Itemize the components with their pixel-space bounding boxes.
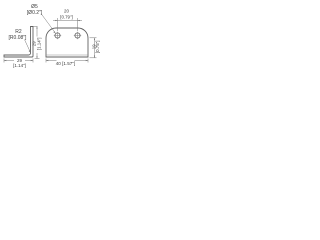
dia leader — [41, 14, 55, 33]
dim 40 extension lines — [45, 59, 47, 63]
dim 40 line — [46, 60, 57, 62]
dim 20 extension lines — [57, 18, 59, 31]
svg-text:40 [1.57"]: 40 [1.57"] — [56, 61, 76, 66]
svg-text:[Ø0.2"]: [Ø0.2"] — [27, 10, 43, 16]
svg-text:[0.79"]: [0.79"] — [60, 15, 73, 20]
svg-text:20: 20 — [64, 9, 69, 14]
front view outline — [46, 28, 88, 57]
background — [0, 0, 100, 75]
bend tangent line — [46, 54, 88, 56]
dim 29 bottom extension lines — [3, 59, 5, 63]
dim 29 bottom line — [4, 60, 14, 62]
hole H1 centermark — [54, 35, 61, 37]
radius leader — [25, 40, 30, 52]
hole H2 — [75, 33, 80, 38]
hole H2 centermark — [74, 35, 81, 37]
side view L-profile — [4, 27, 33, 58]
svg-text:[R0.08"]: [R0.08"] — [9, 35, 28, 41]
svg-text:[1.14"]: [1.14"] — [37, 38, 42, 51]
svg-text:[0.75"]: [0.75"] — [95, 41, 100, 54]
dim 19 line — [94, 38, 96, 58]
hole H1 — [55, 33, 60, 38]
dim 29 vertical extension lines — [33, 26, 38, 28]
dim 29 vertical line — [36, 27, 38, 37]
svg-text:[1.14"]: [1.14"] — [13, 63, 26, 68]
dim 19 extension lines — [90, 37, 97, 39]
dim 20 line — [53, 20, 82, 22]
